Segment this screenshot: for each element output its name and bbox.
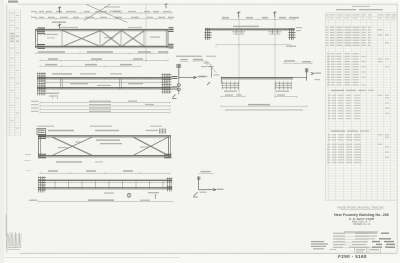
detail 4 top dimension row <box>39 170 170 174</box>
detail 1 top chord <box>35 30 168 31</box>
detail 6 main beam lines <box>221 77 307 84</box>
detail 3 bottom label <box>56 161 103 162</box>
detail 5 beam lines <box>205 29 295 30</box>
material list data block B <box>327 53 389 85</box>
detail 5 note above beam <box>233 26 259 27</box>
detail 4 right end connection <box>167 178 173 192</box>
detail 4 left end connection <box>38 177 46 193</box>
detail 5 dimension row <box>221 17 299 20</box>
detail 3 right end rivet ticks above chord <box>160 129 166 134</box>
detail 6 sub dimension rows <box>220 94 297 97</box>
material list data block A <box>326 27 389 46</box>
detail 1 dimension row 2 <box>31 17 174 20</box>
right small section symbol row4 <box>384 177 386 187</box>
detail 2 bottom flange <box>37 88 171 90</box>
detail 2 web splice marks <box>61 78 122 90</box>
detail 2 top flange <box>37 78 171 80</box>
detail 6 left rivet block <box>222 81 239 89</box>
detail 2 left end connection <box>37 73 46 96</box>
detail 3 left X brace <box>52 137 94 155</box>
title block scale boxes <box>355 248 381 253</box>
detail 3 middle labels <box>58 139 149 148</box>
detail 1 right end post <box>166 28 173 48</box>
left edge rivet list strip <box>7 10 21 136</box>
material list data block E <box>327 144 389 163</box>
sheet right border <box>396 4 398 253</box>
material list row lines <box>325 23 397 200</box>
detail 4 below-beam marks <box>104 192 159 199</box>
detail 3 top labels <box>37 128 158 134</box>
detail 6 right rivet block <box>275 81 292 89</box>
detail 6 note line <box>225 109 303 110</box>
detail 2 top dimension row <box>39 64 140 67</box>
detail 1 left end post <box>36 28 45 48</box>
detail 1 right centerline flag <box>165 3 168 8</box>
detail 5 centerline symbols <box>237 12 277 18</box>
detail 3 right X brace <box>133 137 170 155</box>
detail 3 bottom chord <box>38 156 171 157</box>
detail 1 bottom chord <box>35 47 168 48</box>
detail 2 web line <box>45 81 168 83</box>
detail 2 right bracket detail <box>172 59 205 99</box>
detail 6 right bracket <box>293 68 321 80</box>
detail 1 bottom dimension row <box>35 51 168 54</box>
detail 5 lower dimension line <box>216 45 296 48</box>
caption row above detail 3 <box>37 126 162 127</box>
sheet bottom border <box>20 252 397 254</box>
left margin notes <box>6 154 32 236</box>
detail 5 column centerlines <box>239 18 275 98</box>
detail 3 right end post <box>164 136 172 158</box>
corner stamp bottom left <box>7 232 22 250</box>
detail 1 member labels <box>44 27 160 39</box>
detail 2 long dimension chain rows <box>31 101 171 114</box>
detail 1 column gridline <box>145 5 147 62</box>
detail 1 dimension row 1 <box>31 11 173 14</box>
sheet left border <box>6 4 8 253</box>
detail 1 lattice bracing <box>62 31 145 47</box>
detail 1 second bottom dimension row <box>39 58 168 61</box>
material list table frame <box>325 13 397 201</box>
detail 1 centerline symbol mid <box>52 22 66 29</box>
detail 4 right bracket detail <box>193 171 224 197</box>
title block approval stamp left <box>311 241 336 250</box>
detail 1 diagonal leader lines <box>84 4 128 23</box>
material list column lines <box>329 13 391 200</box>
scan grain overlay <box>0 0 1 1</box>
page edge shadow line bottom left <box>4 257 180 259</box>
material list data block D <box>328 134 389 140</box>
detail 3 left end post <box>38 135 46 158</box>
detail 2 labels above and below <box>52 73 143 86</box>
detail 5 end and splice marks <box>205 27 303 40</box>
detail 2 small column section right <box>207 66 214 85</box>
detail 4 web ticks <box>55 180 163 189</box>
material list sub header <box>331 90 374 91</box>
detail 2 right end connection <box>162 74 172 94</box>
sheet top border <box>18 3 397 5</box>
detail 6 left end label <box>214 74 220 75</box>
detail 6 long dimension row <box>220 104 307 107</box>
detail 4 long dimension row <box>29 199 173 202</box>
detail 6 top right dimension <box>283 60 312 64</box>
detail 2 mini bracket dim <box>192 59 207 67</box>
detail 3 top chord <box>38 136 171 137</box>
detail 1 centerline symbol top <box>58 7 61 13</box>
material list header text <box>326 14 397 18</box>
material list sub header 2 <box>331 130 369 131</box>
detail 2 flange rivet ticks <box>52 77 157 79</box>
material list data block C <box>328 95 389 120</box>
detail 6 block labels <box>224 91 289 92</box>
detail 6 left leader note <box>201 62 217 77</box>
detail 4 girder lines <box>38 180 172 189</box>
material list title <box>336 6 383 11</box>
scan corner artifact <box>8 1 18 3</box>
detail 5 caption <box>176 56 216 57</box>
detail 2 right end outboard dashes <box>172 77 178 89</box>
title block form lines <box>333 231 395 248</box>
title block heading <box>337 206 384 210</box>
detail 2 left lower spacing note <box>46 93 59 100</box>
